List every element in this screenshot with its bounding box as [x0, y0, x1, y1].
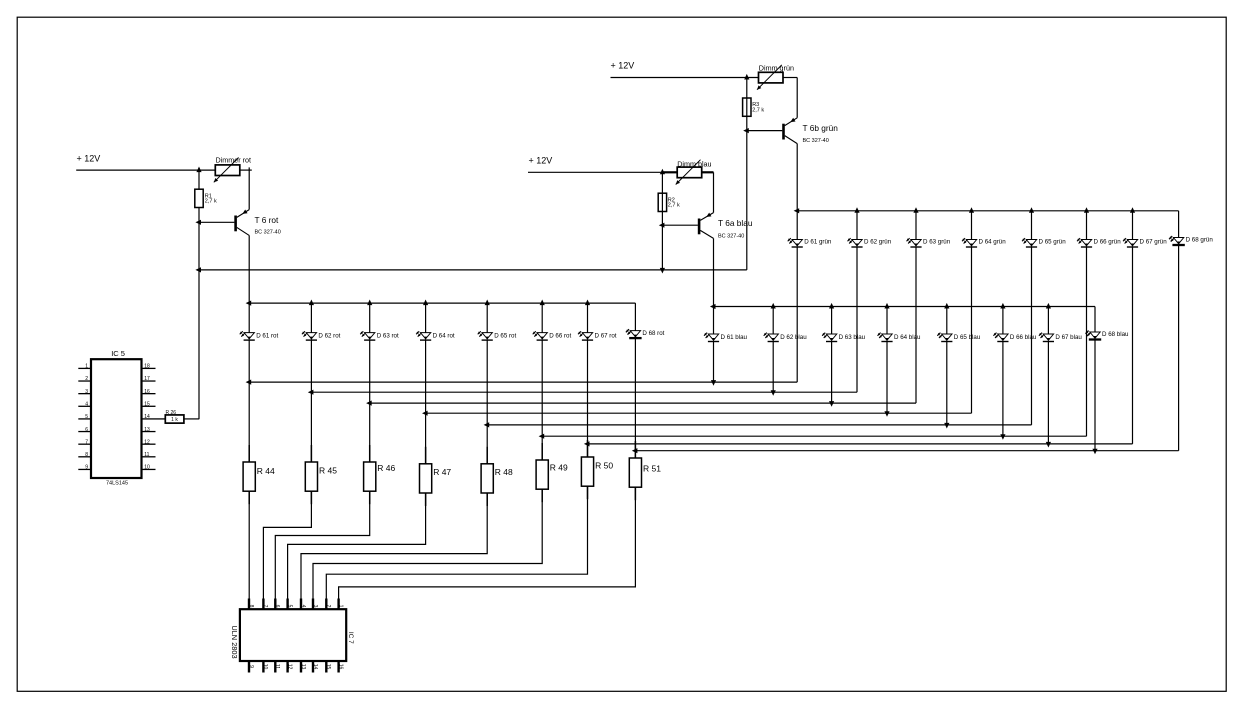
svg-text:D 62 rot: D 62 rot: [318, 333, 340, 340]
svg-text:5: 5: [286, 605, 292, 608]
svg-text:14: 14: [144, 414, 150, 420]
svg-text:R 51: R 51: [643, 464, 661, 474]
svg-text:ULN 2803: ULN 2803: [230, 625, 239, 658]
svg-text:+ 12V: + 12V: [77, 154, 101, 164]
svg-text:8: 8: [248, 605, 254, 608]
svg-text:16: 16: [144, 389, 150, 395]
svg-text:D 61 rot: D 61 rot: [256, 333, 278, 340]
svg-text:T 6a blau: T 6a blau: [718, 218, 753, 228]
svg-text:D 61 blau: D 61 blau: [721, 334, 748, 341]
svg-text:R 45: R 45: [319, 466, 337, 476]
svg-text:9: 9: [248, 665, 254, 668]
svg-text:4: 4: [300, 605, 306, 608]
svg-text:13: 13: [144, 427, 150, 433]
svg-text:D 66 rot: D 66 rot: [549, 333, 571, 340]
svg-text:BC 327-40: BC 327-40: [255, 230, 281, 236]
svg-text:2,7 k: 2,7 k: [668, 203, 680, 209]
svg-text:2,7 k: 2,7 k: [205, 199, 217, 205]
svg-text:7: 7: [85, 439, 88, 445]
svg-text:1: 1: [85, 364, 88, 370]
svg-text:3: 3: [85, 389, 88, 395]
svg-text:15: 15: [325, 664, 331, 670]
svg-text:D 66 blau: D 66 blau: [1010, 334, 1037, 341]
svg-text:D 64 rot: D 64 rot: [433, 333, 455, 340]
svg-text:5: 5: [85, 414, 88, 420]
svg-text:2,7 k: 2,7 k: [752, 107, 764, 113]
svg-text:D 67 grün: D 67 grün: [1140, 239, 1168, 246]
svg-text:3: 3: [312, 605, 318, 608]
svg-text:D 63 grün: D 63 grün: [923, 239, 951, 246]
svg-text:R 47: R 47: [433, 467, 451, 477]
svg-text:R 49: R 49: [550, 463, 568, 473]
svg-text:10: 10: [262, 664, 268, 670]
svg-text:12: 12: [144, 439, 150, 445]
svg-text:7: 7: [262, 605, 268, 608]
svg-text:Dimmer rot: Dimmer rot: [216, 156, 252, 165]
svg-text:D 67 rot: D 67 rot: [595, 333, 617, 340]
svg-text:+ 12V: + 12V: [611, 61, 635, 71]
svg-text:9: 9: [85, 465, 88, 471]
svg-text:Dimm blau: Dimm blau: [677, 159, 711, 168]
svg-text:13: 13: [300, 664, 306, 670]
svg-text:6: 6: [85, 427, 88, 433]
svg-text:D 65 grün: D 65 grün: [1039, 239, 1067, 246]
svg-text:D 61 grün: D 61 grün: [804, 239, 832, 246]
svg-text:D 65 rot: D 65 rot: [494, 333, 516, 340]
svg-text:D 62 blau: D 62 blau: [780, 334, 807, 341]
svg-text:10: 10: [144, 465, 150, 471]
svg-text:6: 6: [274, 605, 280, 608]
svg-text:8: 8: [85, 452, 88, 458]
svg-text:D 64 grün: D 64 grün: [979, 239, 1007, 246]
svg-text:2: 2: [85, 376, 88, 382]
svg-text:4: 4: [85, 401, 88, 407]
svg-text:12: 12: [286, 664, 292, 670]
svg-text:D 65 blau: D 65 blau: [954, 334, 981, 341]
svg-text:IC 5: IC 5: [111, 349, 125, 358]
svg-text:18: 18: [144, 364, 150, 370]
svg-text:IC 7: IC 7: [347, 632, 354, 644]
svg-text:17: 17: [144, 376, 150, 382]
svg-text:Dimm grün: Dimm grün: [759, 63, 794, 72]
svg-text:1 k: 1 k: [171, 417, 178, 423]
svg-text:D 64 blau: D 64 blau: [894, 334, 921, 341]
svg-text:D 68 rot: D 68 rot: [642, 330, 664, 337]
svg-text:11: 11: [274, 664, 280, 669]
svg-text:D 68 grün: D 68 grün: [1186, 237, 1214, 244]
svg-text:D 68 blau: D 68 blau: [1102, 331, 1129, 338]
svg-text:74LS145: 74LS145: [106, 481, 128, 487]
svg-text:T 6b grün: T 6b grün: [803, 123, 839, 133]
svg-text:R 26: R 26: [166, 410, 177, 416]
svg-text:BC 327-40: BC 327-40: [718, 233, 744, 239]
svg-text:T 6 rot: T 6 rot: [255, 215, 280, 225]
svg-text:11: 11: [144, 452, 149, 458]
svg-text:R 46: R 46: [377, 463, 395, 473]
svg-text:D 67 blau: D 67 blau: [1055, 334, 1082, 341]
svg-text:D 62 grün: D 62 grün: [864, 239, 892, 246]
svg-text:+ 12V: + 12V: [529, 156, 553, 166]
svg-text:D 63 rot: D 63 rot: [377, 333, 399, 340]
svg-text:15: 15: [144, 401, 150, 407]
svg-text:R 50: R 50: [595, 461, 613, 471]
svg-text:BC 327-40: BC 327-40: [803, 138, 829, 144]
svg-text:D 66 grün: D 66 grün: [1094, 239, 1122, 246]
svg-text:R 48: R 48: [495, 467, 513, 477]
svg-text:14: 14: [312, 664, 318, 670]
svg-text:2: 2: [325, 605, 331, 608]
svg-text:D 63 blau: D 63 blau: [839, 334, 866, 341]
svg-text:R 44: R 44: [257, 466, 275, 476]
svg-text:16: 16: [337, 664, 343, 670]
svg-text:1: 1: [337, 605, 343, 608]
